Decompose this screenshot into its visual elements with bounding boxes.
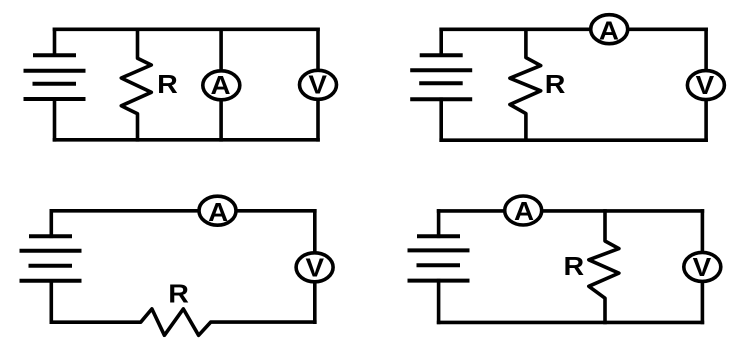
wire: C3 bottom rail with resistor R (horizontal zigzag) in series [51,309,315,335]
battery B1 [26,55,84,99]
wire: C1 battery bottom stub [53,99,57,140]
svg-text:R: R [563,251,584,280]
circuit 2 (top-right): battery and R in parallel, A in series on top rail, V across right side [412,15,724,141]
wire: C3 top rail [51,209,315,213]
svg-text:V: V [696,71,715,100]
circuit 4 (bottom-right): battery, A in series on top rail, R in parallel, V on right [410,196,721,322]
ammeter A2 (in series on top rail) [591,15,628,45]
wire: C3 battery top stub [49,211,53,237]
wire: C2 battery bottom stub [439,99,443,140]
voltmeter V1 [300,70,337,99]
svg-text:R: R [545,69,566,98]
wire: C3 battery bottom stub [49,281,53,322]
svg-text:V: V [308,70,327,99]
voltmeter V4 [684,252,721,281]
wire: C1 top rail [55,27,319,31]
svg-text:A: A [599,16,619,45]
ammeter A1 [203,71,240,100]
wire: C2 top rail [441,27,706,31]
ammeter A4 (in series on top rail) [505,196,542,226]
label R (C2) [545,69,566,98]
svg-text:A: A [208,198,228,227]
wire: C3 right rail [313,211,317,322]
label R (C1) [157,69,178,98]
wire: C4 right rail [701,211,705,323]
battery B2 [412,55,470,99]
wire: C1 bottom rail [55,138,319,142]
label R (C3) [168,279,189,308]
wire: C1 battery top stub [53,29,57,55]
battery B4 [410,236,468,280]
svg-text:A: A [514,197,534,226]
wire: C2 right rail [704,29,708,140]
wire: C4 top rail [439,209,703,213]
svg-text:R: R [157,69,178,98]
voltmeter V3 [296,253,333,282]
resistor R (C1, vertical zigzag) [121,29,151,140]
ammeter A3 (in series on top rail) [199,196,236,227]
circuit 1 (top-left): battery, R, A, V all in parallel [26,29,337,140]
svg-text:V: V [306,253,325,282]
voltmeter V2 [687,71,724,100]
battery B3 [22,236,80,280]
wire: C4 battery top stub [437,211,441,236]
svg-text:A: A [211,71,231,100]
resistor R (C2, vertical zigzag) [510,29,541,140]
wire: C2 bottom rail [441,138,706,142]
svg-text:R: R [168,279,189,308]
resistor R (C4, vertical zigzag) [589,211,619,323]
wire: C2 battery top stub [439,29,443,55]
wire: C1 voltmeter branch (right rail) [316,29,320,140]
wire: C4 battery bottom stub [437,281,441,323]
svg-text:V: V [693,253,712,282]
label R (C4) [563,251,584,280]
circuit 3 (bottom-left): series loop, A in series on top rail, R in series on bottom rail, V on right [22,196,334,335]
wire: C4 bottom rail [439,321,703,325]
wire: C1 ammeter branch [219,29,223,140]
